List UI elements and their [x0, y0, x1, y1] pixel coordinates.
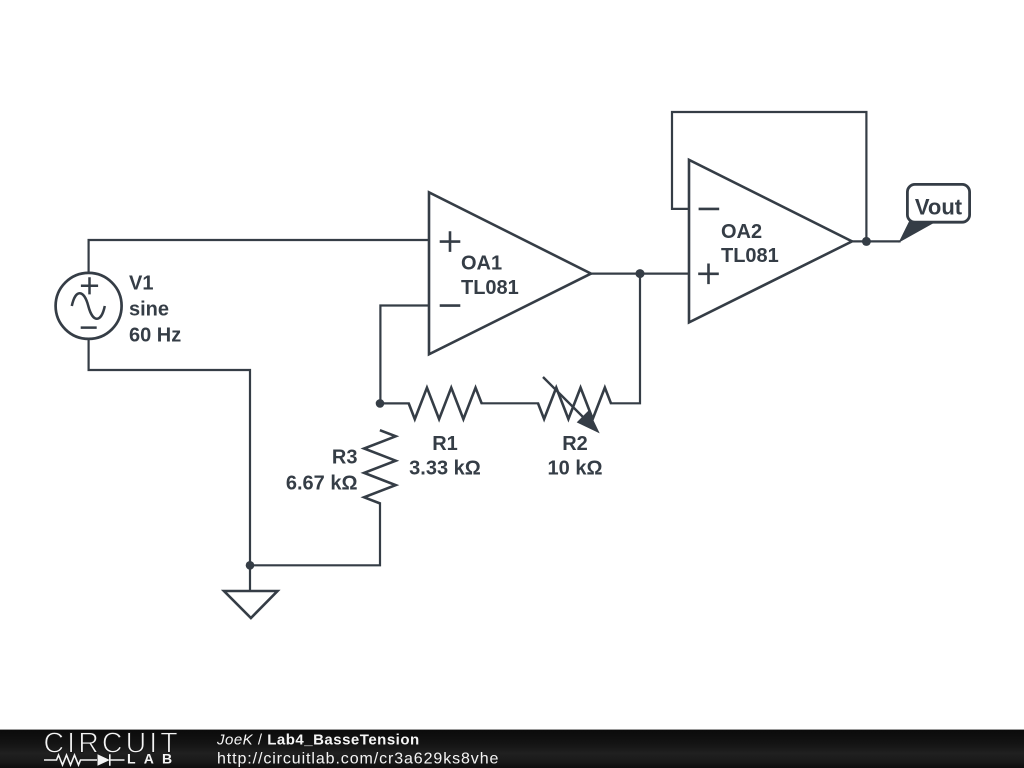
OA1 - pin mark: [440, 304, 461, 307]
wire V1 bottom to ground node: [89, 339, 250, 565]
node Vout junction dot: [862, 237, 871, 246]
wire ground node to R3 bottom: [250, 503, 380, 565]
wire node A to R1 left: [384, 402, 409, 404]
OA1 + pin mark: [440, 231, 461, 252]
wire R1 right to R2 left: [482, 402, 538, 404]
OA2 + pin mark: [698, 264, 719, 285]
Vout flag: [899, 184, 970, 242]
label R2 10 kOhm: [548, 433, 603, 479]
svg-text:JoeK / Lab4_BasseTension: JoeK / Lab4_BasseTension: [216, 732, 420, 749]
op-amp OA2: [689, 160, 852, 323]
node B junction dot: [636, 269, 645, 278]
wire OA2 feedback loop: [672, 112, 866, 241]
voltage source V1: [56, 273, 122, 339]
svg-text:LAB: LAB: [127, 750, 180, 766]
resistor R1: [409, 388, 482, 419]
wire node B down to R2 right: [611, 274, 640, 404]
svg-text:http://circuitlab.com/cr3a629k: http://circuitlab.com/cr3a629ks8vhe: [217, 751, 499, 768]
wire OA1 - input to node A: [380, 306, 429, 400]
wire OA2 output to Vout: [852, 240, 900, 242]
label OA2 TL081: [721, 221, 779, 267]
op-amp OA1: [429, 192, 591, 354]
footer bar: [0, 729, 1024, 768]
resistor R3: [364, 430, 396, 503]
wire V1 top to OA1 + input: [89, 240, 429, 273]
wire ground stub: [249, 565, 251, 590]
OA2 - pin mark: [699, 208, 720, 211]
wire OA1 output to OA2 + input: [591, 273, 689, 275]
logo resistor-diode squiggle: [44, 754, 125, 766]
CircuitLab logo: [44, 728, 181, 767]
resistor R2 (variable): [538, 388, 611, 419]
label OA1 TL081: [461, 253, 519, 299]
label R3 6.67 kOhm: [286, 447, 358, 495]
ground: [224, 591, 278, 618]
node A junction dot: [376, 399, 385, 408]
ground node junction dot: [246, 561, 255, 570]
label V1 sine 60 Hz: [129, 273, 181, 347]
R2 wiper arrow: [543, 377, 600, 433]
label R1 3.33 kOhm: [409, 433, 481, 479]
